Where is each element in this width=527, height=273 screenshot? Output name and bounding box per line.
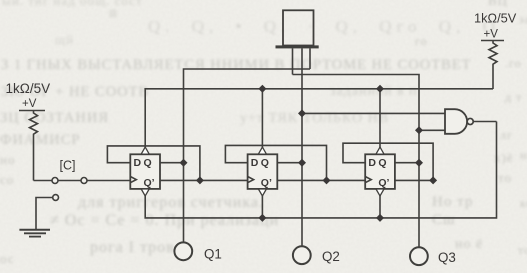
svg-text:Q3: Q3 xyxy=(438,250,456,265)
svg-text:Q’: Q’ xyxy=(378,177,389,189)
svg-text:[C]: [C] xyxy=(60,159,76,173)
svg-text:Q’: Q’ xyxy=(261,177,272,189)
svg-text:Q: Q xyxy=(144,157,152,169)
svg-text:+V: +V xyxy=(22,98,37,110)
svg-text:D: D xyxy=(368,157,376,169)
svg-text:D: D xyxy=(134,157,142,169)
svg-text:1kΩ/5V: 1kΩ/5V xyxy=(6,81,51,96)
svg-text:Q: Q xyxy=(378,157,386,169)
svg-text:1kΩ/5V: 1kΩ/5V xyxy=(474,11,517,26)
svg-text:Q2: Q2 xyxy=(322,249,340,264)
svg-text:D: D xyxy=(251,157,259,169)
svg-text:Q’: Q’ xyxy=(144,177,155,189)
svg-text:Q: Q xyxy=(261,157,269,169)
svg-text:Q1: Q1 xyxy=(204,247,222,262)
svg-text:+V: +V xyxy=(484,29,499,41)
